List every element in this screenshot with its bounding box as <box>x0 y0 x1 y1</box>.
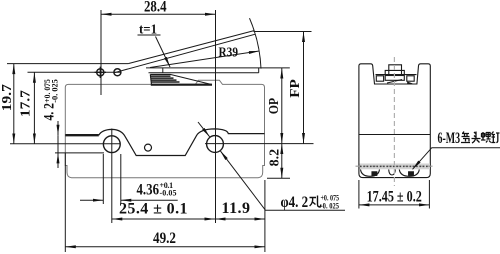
svg-text:17.7: 17.7 <box>18 90 33 117</box>
svg-text:4.36: 4.36 <box>137 182 160 199</box>
svg-text:11.9: 11.9 <box>222 200 251 217</box>
svg-text:6-M3: 6-M3 <box>438 130 461 147</box>
svg-text:8.2: 8.2 <box>268 149 283 167</box>
svg-text:-0. 025: -0. 025 <box>50 79 60 103</box>
svg-text:t=1: t=1 <box>139 23 157 38</box>
svg-text:R39: R39 <box>219 46 239 61</box>
svg-text:17.45 ± 0.2: 17.45 ± 0.2 <box>367 189 422 206</box>
svg-text:FP: FP <box>288 79 303 98</box>
svg-text:28.4: 28.4 <box>144 0 167 16</box>
svg-text:19.7: 19.7 <box>0 84 15 111</box>
svg-text:φ4. 2: φ4. 2 <box>281 194 309 211</box>
svg-text:-0. 025: -0. 025 <box>321 201 340 210</box>
svg-text:25.4 ± 0.1: 25.4 ± 0.1 <box>119 201 188 218</box>
svg-text:4. 2: 4. 2 <box>42 103 58 121</box>
svg-text:-0.05: -0.05 <box>160 189 177 198</box>
svg-text:49.2: 49.2 <box>153 230 176 247</box>
svg-text:OP: OP <box>267 97 282 114</box>
